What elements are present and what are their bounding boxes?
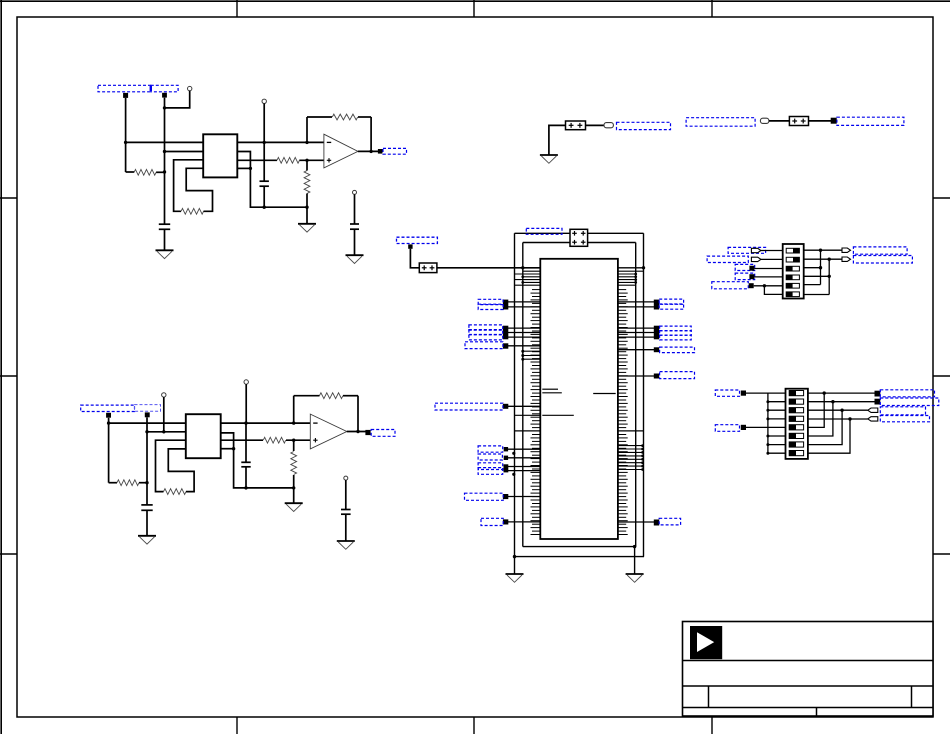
wire T2 to C3 <box>354 194 356 224</box>
IC pin right C (1 pin + label) <box>618 347 695 353</box>
resistor R2 <box>181 208 204 214</box>
terminal square VDRIVE <box>408 244 412 248</box>
wire SW1-4 <box>754 276 782 278</box>
wire SW2 bus r2-r6 <box>808 402 833 436</box>
wire C4 to ground <box>146 510 148 536</box>
wire U3 out D <box>221 448 234 450</box>
wire T4 to C6 <box>345 480 347 509</box>
junction SW1 busB/r4 <box>828 275 831 278</box>
power ring outer <box>514 233 644 556</box>
terminal circle T3 <box>162 393 166 397</box>
IC pin group SCLK/DIN (2 pins + labels) <box>478 299 540 309</box>
net label SW1-2R <box>853 256 912 264</box>
ground GND2 <box>298 224 316 232</box>
wire C5 bottom <box>245 467 247 488</box>
net label SW2-IN2 <box>715 425 739 432</box>
junction rail/C2 <box>263 206 266 209</box>
junction T1/input2 <box>163 106 166 109</box>
terminal flag SW1-1R <box>842 248 851 252</box>
junction output/feedback <box>369 150 372 153</box>
net label SW1-5 <box>712 282 749 289</box>
wire SW2-IN2 <box>746 426 786 428</box>
junction c2 rail/C5 <box>244 486 247 489</box>
net label VDD top <box>526 228 562 234</box>
net label VIN2- (circuit 2 input label right) <box>135 405 161 412</box>
terminal circle T2 <box>353 190 357 194</box>
border tick bottom 1 <box>236 717 238 734</box>
op-amp U2 <box>324 134 358 168</box>
wire C2 bottom <box>263 186 265 207</box>
junction SW2 r2 <box>831 400 834 403</box>
border tick left 1 <box>0 197 17 199</box>
net label SW1-1 <box>728 247 766 253</box>
wire IC left ring jog <box>515 430 541 432</box>
wire c2 input2 to U3 <box>147 431 186 433</box>
net label VIN1+ (circuit 1 input label left) <box>98 85 151 92</box>
terminal flag SW2-3R <box>868 408 878 412</box>
title block line 1 <box>683 660 934 662</box>
terminal square SW2-2R <box>875 399 881 405</box>
junction c2 input1 <box>107 421 110 424</box>
terminal oval T6 <box>760 118 769 123</box>
feedback wire up <box>306 117 308 142</box>
IC pin SYNC (1 pin + label) <box>465 493 541 500</box>
capacitor C2 <box>260 181 269 186</box>
wire IC right ground drop <box>634 547 636 574</box>
wire input2 vertical <box>164 98 166 225</box>
IC pin right E (1 pin + label) <box>618 518 681 525</box>
IC U5 left top pin fan <box>515 271 541 285</box>
wire SW1-6 right <box>804 294 830 296</box>
terminal flag SW2-4R <box>868 417 878 421</box>
ground GND4 <box>138 536 156 544</box>
IC U5 internal mark 4 <box>542 414 574 416</box>
title block line 3 <box>683 707 934 709</box>
wire SW1-5 right <box>804 284 821 286</box>
net label SW2-4R <box>880 416 929 422</box>
ground GND6 <box>337 541 355 549</box>
capacitor C4 <box>141 505 152 510</box>
capacitor C3 <box>350 224 359 229</box>
wire U1 out A (to opamp minus) <box>237 141 324 143</box>
wire U1 out D <box>237 167 250 169</box>
op-amp U4 <box>310 414 347 449</box>
terminal oval T5 <box>604 123 613 128</box>
title block divider right <box>911 686 913 708</box>
terminal square SW2-IN1 <box>741 391 746 396</box>
ground GND3 <box>346 255 364 263</box>
terminal square U2 out <box>378 149 383 154</box>
net label AGND_SEL <box>617 122 671 129</box>
wire SW1-6 jog <box>764 286 782 295</box>
wire c2 input1 to U3 <box>109 422 186 424</box>
wire IC right ring jog <box>618 430 644 432</box>
resistor R4 <box>304 160 310 207</box>
wire C5 top <box>245 423 247 462</box>
jumper header J3 <box>566 121 586 130</box>
terminal square J1-1 <box>123 93 128 98</box>
terminal circle T1b <box>262 99 266 103</box>
wire J4 to square <box>809 120 832 122</box>
wire SW1-2 <box>761 258 783 260</box>
wire J6 to ring and IC pin <box>437 267 540 269</box>
IC U5 internal mark 2 <box>542 392 562 394</box>
resistor R7 <box>164 489 187 495</box>
wire opamp U2 output <box>358 150 383 152</box>
wire T1b drop <box>263 104 265 143</box>
resistor R1 <box>126 169 165 175</box>
border tick top 3 <box>711 0 713 17</box>
net label SW2-IN1 <box>715 390 739 396</box>
IC U5 right pin comb <box>618 290 628 535</box>
junction R6/input2 <box>145 481 148 484</box>
junction SW2 r4 <box>848 417 851 420</box>
capacitor C1 <box>159 224 170 229</box>
wire T6 to J4 <box>769 120 790 122</box>
power ring inner <box>523 243 636 547</box>
border tick left 2 <box>0 375 17 377</box>
terminal square U4 out <box>365 430 370 435</box>
wire C2 top <box>263 142 265 181</box>
IC pin group CS/SDO/DRDY (3 pins + labels) <box>469 325 540 340</box>
wire SW2 bus r4-r8 <box>808 419 850 453</box>
wire SW1-1 <box>761 250 783 252</box>
net label VOUT1 <box>383 148 407 154</box>
wire SW1-1 right <box>804 249 842 251</box>
net label SW2-3R <box>880 407 925 415</box>
terminal square SW2-IN2 <box>741 425 746 430</box>
title block bottom divider <box>816 708 818 717</box>
net label SW1-3 <box>735 264 755 270</box>
IC pin group right A (2 pins + labels) <box>618 299 684 309</box>
border tick left 3 <box>0 553 17 555</box>
title block divider left <box>708 686 710 708</box>
wire U1 loop out <box>174 160 204 212</box>
IC U5 right bus pin group <box>618 444 644 471</box>
terminal square J1-2 <box>162 93 167 98</box>
IC U5 internal mark 1 <box>542 388 558 390</box>
wire J3 to ground <box>549 125 566 155</box>
terminal flag SW1-2 <box>751 257 761 261</box>
feedback wire down <box>370 117 372 151</box>
wire U1 loop back <box>186 168 212 211</box>
DIP switch SW1 body <box>783 244 804 299</box>
wire U1 out C (to opamp plus) <box>237 159 324 161</box>
IC U5 left pin comb <box>531 290 541 535</box>
IC U5 body <box>540 259 618 539</box>
net label SW1-1R <box>853 247 907 254</box>
wire U3 out A (to opamp minus) <box>221 422 311 424</box>
wire T3 drop <box>163 397 165 432</box>
DIP switch SW2 body <box>786 389 808 459</box>
junction T3 on wire <box>162 430 165 433</box>
wire input2 to U1 <box>165 151 204 153</box>
terminal square SW2-1R <box>875 391 881 397</box>
wire SW1-4 right <box>804 275 830 277</box>
ground GND7 <box>540 155 558 163</box>
wire J3 to T5 <box>586 124 605 126</box>
net label VIN2+ (circuit 2 input label left) <box>81 405 135 411</box>
wire rail to ground <box>306 207 308 224</box>
border outer top line <box>0 0 950 2</box>
IC pin RESET (1 pin + label) <box>465 342 540 349</box>
border tick bottom 2 <box>473 717 475 734</box>
wire SW1 bus B <box>828 259 830 294</box>
resistor R6 <box>109 480 147 486</box>
junction SW1 r2 <box>828 258 831 261</box>
capacitor C5 <box>241 462 250 467</box>
wire SW2-4 right <box>808 418 868 420</box>
border tick top 1 <box>236 0 238 17</box>
terminal square SW1-4 <box>749 274 754 279</box>
terminal square J4 out <box>831 118 837 124</box>
junction c2 input2 mid <box>145 430 148 433</box>
wire SW2 bus r1-r5 <box>808 393 824 427</box>
junction input2 mid <box>163 150 166 153</box>
wire c2 rail to ground <box>293 488 295 503</box>
junction input1 <box>124 141 127 144</box>
capacitor C6 <box>341 510 351 515</box>
junction c2 outA/C5 <box>244 421 247 424</box>
net label SW1-2 <box>707 256 748 262</box>
wire SW2 bus r3-r7 <box>808 410 842 444</box>
ground GND5 <box>285 503 303 511</box>
border tick right 2 <box>933 375 950 377</box>
junction c2 rail/R9 <box>292 486 295 489</box>
junction SW2 r1 <box>823 391 826 394</box>
junction plus/R4 <box>305 159 308 162</box>
net label VDRIVE <box>397 237 438 243</box>
resistor R5 feedback <box>307 114 371 120</box>
DIP switch SW1 positions <box>786 248 799 296</box>
junction ring jog <box>642 266 645 269</box>
IC pin XTAL (1 pin + label) <box>481 518 540 525</box>
terminal circle T4 <box>344 476 348 480</box>
wire U3 loop back <box>168 449 194 492</box>
wire ring jog right <box>618 267 644 269</box>
ground GND8 <box>506 574 524 582</box>
wires IC left bus taps <box>521 350 540 361</box>
wire opamp U4 output <box>347 431 366 433</box>
resistor R10 feedback <box>294 393 358 399</box>
junction c2 outB/outD <box>232 447 235 450</box>
wire SW1-3 <box>754 268 782 270</box>
junction outB/outD <box>249 167 252 170</box>
net label SW2-1R <box>880 390 934 397</box>
wire SW1-2 right <box>804 258 842 260</box>
terminal circle T3b <box>244 380 248 384</box>
wire SW2-IN1 <box>746 392 786 394</box>
border tick bottom 3 <box>711 717 713 734</box>
net label VOUT2 <box>371 430 395 437</box>
junction c2 output/feedback <box>356 430 359 433</box>
wire C6 to ground <box>345 514 347 541</box>
junction minus/feedback <box>305 141 308 144</box>
junction SW1 r1 <box>819 249 822 252</box>
net label REF_IN <box>837 117 904 125</box>
junction SW2 r3 <box>840 409 843 412</box>
resistor R3 <box>277 157 300 163</box>
IC pin group GPIO0-3 (4 pins + labels) <box>478 446 540 476</box>
wire U3 out B down <box>221 433 294 488</box>
border tick right 1 <box>933 197 950 199</box>
net label VIN1- (circuit 1 input label right) <box>150 85 179 92</box>
junction c2 plus/R9 <box>292 439 295 442</box>
junction J6/ring <box>521 266 524 269</box>
terminal square J2-1 <box>106 413 111 418</box>
title block line 2 <box>683 685 934 687</box>
wire U3 out C (to opamp plus) <box>221 437 311 443</box>
IC pin MCLK (long label) <box>435 403 540 410</box>
junction SW1-6/SW1-5 <box>763 284 766 287</box>
wire SW1-3 right <box>804 267 821 269</box>
c2 feedback wire up <box>293 396 295 423</box>
title block logo (Analog Devices) <box>690 626 722 659</box>
IC U5 right top pin fan <box>618 271 644 285</box>
junction outA/C2 <box>263 141 266 144</box>
wire U1 out B down <box>237 152 307 208</box>
junction SW1 busA/r3 <box>819 266 822 269</box>
wire SW2-3 right <box>808 409 868 411</box>
terminal square SW1-3 <box>749 266 754 271</box>
wire SW2-2 right <box>808 401 875 403</box>
wire C1 to ground <box>164 229 166 250</box>
wire VDRIVE to J6 <box>410 249 419 268</box>
junction IC left ground <box>513 555 516 558</box>
wire IC left ground drop <box>514 557 516 574</box>
jumper header J6 <box>419 263 437 273</box>
header J5 2x2 <box>570 229 588 246</box>
DIP switch SW2 positions <box>789 391 803 456</box>
terminal square SW1-5 <box>749 283 754 288</box>
ground GND9 <box>626 574 644 582</box>
c2 feedback wire down <box>357 396 359 433</box>
wire U3 loop out <box>156 440 186 491</box>
wire SW1 bus A <box>820 250 822 284</box>
title block outline <box>683 622 934 717</box>
terminal flag SW1-2R <box>842 257 851 261</box>
IC pin group right B (3 pins + labels) <box>618 326 691 340</box>
net label SW2-2R <box>880 398 939 406</box>
junction IC right ground <box>633 545 636 548</box>
sensor block U3 <box>186 414 221 458</box>
resistor R9 <box>291 440 297 488</box>
wire input1 to U1 <box>126 141 204 143</box>
net label SW1-4 <box>735 273 755 280</box>
wire T3b drop <box>245 384 247 423</box>
wires SW2 left bus rows <box>766 400 785 455</box>
jumper header J4 <box>789 117 808 126</box>
junction rail/R4 <box>305 206 308 209</box>
IC pin right D (1 pin + label) <box>618 372 695 379</box>
wire c2 input2 vertical <box>146 417 148 505</box>
net label EXT_REF <box>686 118 755 127</box>
junction c2 minus/feedback <box>292 421 295 424</box>
terminal square J2-2 <box>145 412 150 417</box>
wire c2 input1 vertical <box>108 418 110 483</box>
wire T1 drop <box>165 91 190 108</box>
ground GND1 <box>156 250 174 258</box>
border outer left line <box>0 0 2 734</box>
terminal flag SW1-1 <box>751 248 761 252</box>
border tick right 3 <box>933 553 950 555</box>
junction R1/input2 <box>163 170 166 173</box>
wire input1 vertical <box>125 98 127 172</box>
wire SW2-1 right <box>808 392 875 394</box>
terminal circle T1 <box>188 86 192 90</box>
wire SW1-5 <box>754 285 783 287</box>
IC U5 internal mark 3 <box>593 393 616 395</box>
sensor block U1 <box>203 134 237 177</box>
wire C3 to ground <box>354 229 356 255</box>
wire SW2 left bus <box>767 393 769 453</box>
wire IC left long tap <box>515 414 541 416</box>
border tick top 2 <box>473 0 475 17</box>
